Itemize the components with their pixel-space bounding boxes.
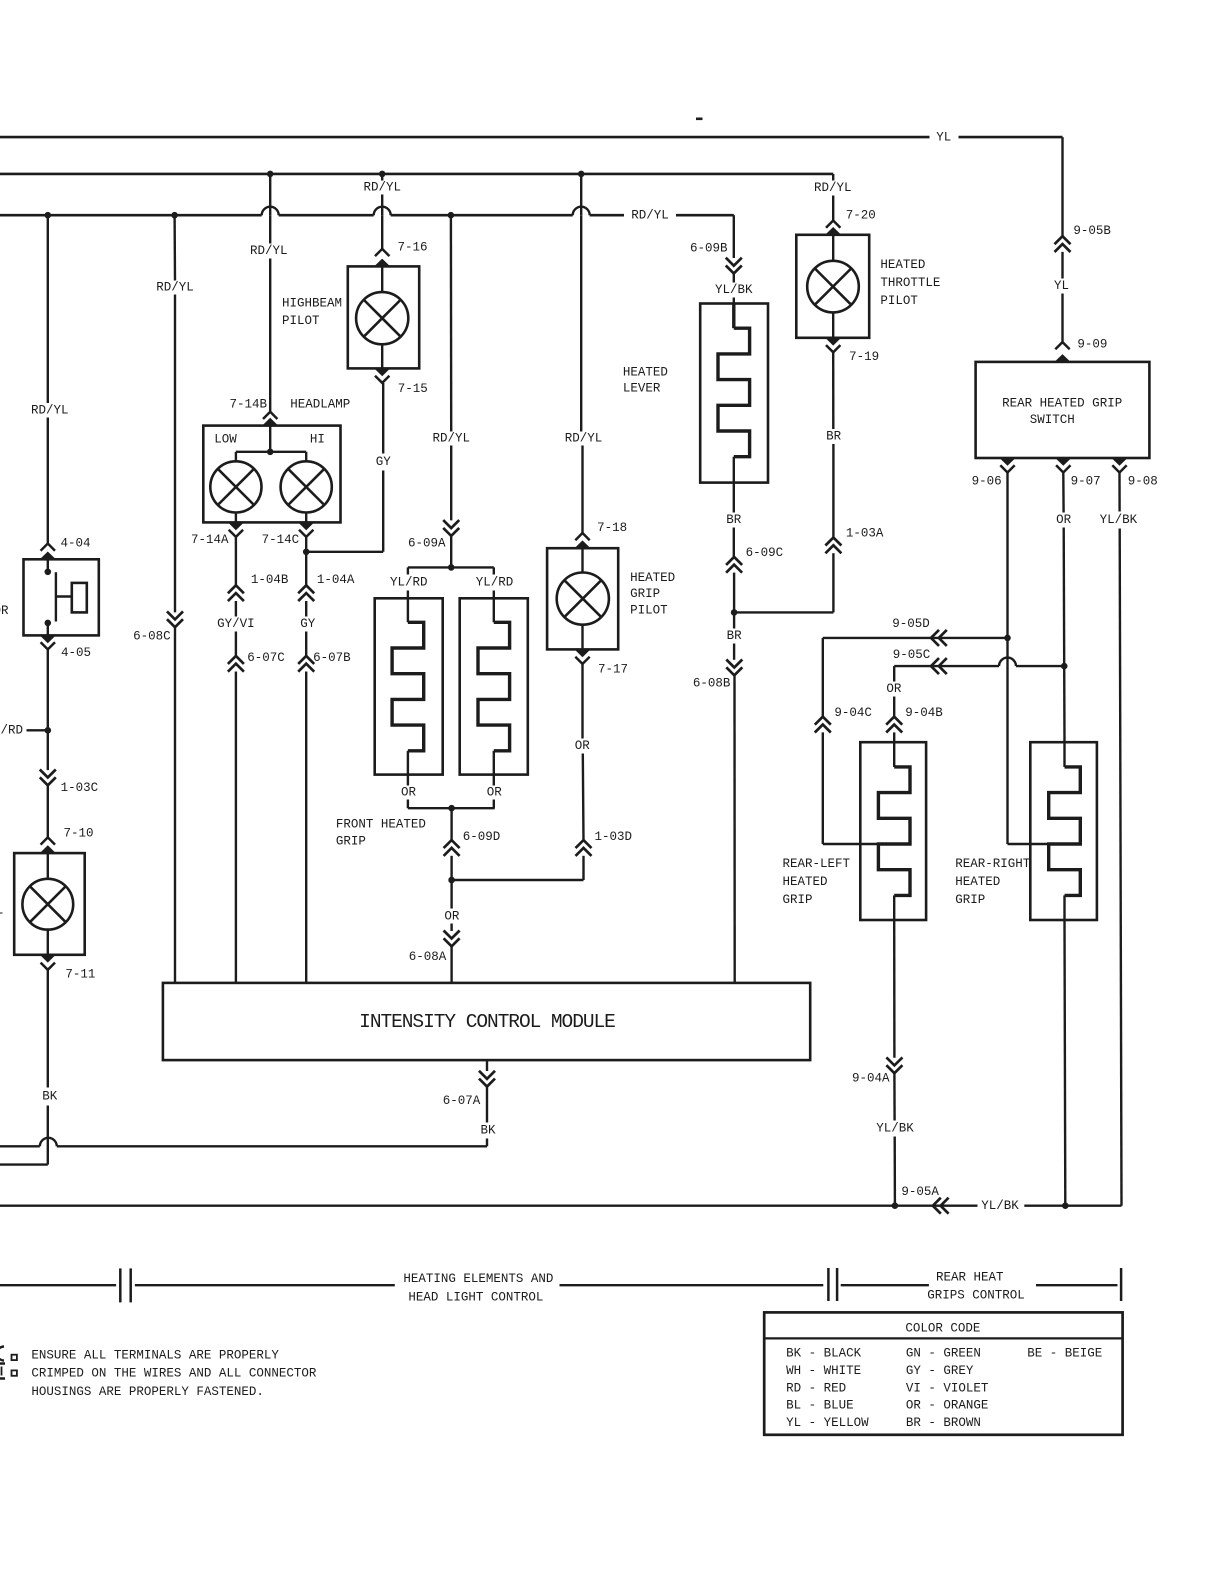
svg-text:HEATED: HEATED: [623, 365, 668, 379]
svg-text:BK: BK: [480, 1123, 496, 1137]
svg-text:WH - WHITE: WH - WHITE: [786, 1364, 861, 1378]
wire: BK bottom run: [57, 1145, 487, 1147]
wire to front-grip splice: [450, 536, 452, 568]
svg-text:RD - RED: RD - RED: [786, 1381, 846, 1395]
terminal into headlamp: [262, 418, 278, 426]
svg-text:6-09C: 6-09C: [746, 546, 784, 560]
wire 9-06 into rear-right element: [1008, 843, 1049, 845]
svg-text:6-08A: 6-08A: [409, 950, 447, 964]
svg-text:GY/VI: GY/VI: [217, 617, 255, 631]
wire OR below junction: [450, 880, 452, 909]
wire: 9-05D link: [823, 637, 1008, 639]
front heated grip (left) heating element: [392, 622, 424, 751]
wire BR below junction: [733, 612, 735, 628]
section bracket: rear heat grips control: [827, 1268, 830, 1301]
wire YL/BK 9-08 down: [1118, 473, 1120, 512]
wire 9-04C down: [822, 638, 824, 717]
connector pin 7-14C: [299, 530, 313, 537]
wire below 7-14C node: [305, 537, 307, 585]
svg-text:7-14A: 7-14A: [191, 533, 229, 547]
svg-text:OR: OR: [575, 739, 591, 753]
front heated grip (left) box: [375, 598, 443, 774]
node: YL/BK junction: [1062, 1202, 1069, 1209]
svg-text:BK - BLACK: BK - BLACK: [786, 1347, 862, 1361]
wire to intensity control module: [235, 672, 237, 983]
highbeam pilot lamp box: [348, 266, 419, 368]
connector pin 7-20: [826, 221, 840, 228]
connector pin 7-14A: [229, 530, 243, 537]
wire drop to heated lever: [733, 215, 735, 258]
svg-text:HEATED: HEATED: [630, 571, 675, 585]
svg-text:GRIPS CONTROL: GRIPS CONTROL: [927, 1288, 1025, 1302]
connector 9-04C: [815, 717, 831, 725]
node: bus2 junction x=581: [578, 171, 585, 178]
svg-text:6-09D: 6-09D: [463, 830, 501, 844]
terminal out 9-08: [1112, 458, 1128, 466]
connector 6-08C: [167, 619, 183, 627]
terminal into switch (solid arrow): [40, 552, 56, 560]
headlamp H1 box: [203, 426, 340, 523]
node: bus3 junction x=450.9: [448, 212, 455, 219]
wire: YL drop from bus 1: [1061, 137, 1063, 236]
wire OR 9-04B down: [893, 666, 895, 681]
wire: RD/YL bus (line 2): [0, 173, 833, 176]
svg-text:REAR-LEFT: REAR-LEFT: [783, 857, 851, 871]
node: OR merge: [448, 805, 455, 812]
wire inside lamp box: [47, 853, 49, 878]
svg-text:RD/YL: RD/YL: [250, 244, 288, 258]
svg-text:YL/RD: YL/RD: [390, 575, 428, 589]
wire OR 9-07 down: [1062, 473, 1065, 513]
svg-text:1-03A: 1-03A: [846, 527, 884, 541]
wire inside headlamp to node: [269, 426, 271, 452]
svg-text:4-05: 4-05: [61, 646, 91, 660]
svg-text:YL/BK: YL/BK: [981, 1199, 1019, 1213]
svg-text:RD/YL: RD/YL: [31, 403, 69, 417]
svg-text:9-08: 9-08: [1128, 475, 1158, 489]
svg-text:9-09: 9-09: [1077, 338, 1107, 352]
wire: RD/YL bus (line 3) with inline label and hops: [0, 214, 262, 217]
wire down from merge: [450, 808, 452, 840]
connector pin 9-07: [1056, 465, 1070, 472]
wire: BK down from 7-11: [47, 970, 49, 1088]
svg-text:HIGHBEAM: HIGHBEAM: [282, 296, 342, 310]
node: bus2 junction x=382: [379, 171, 386, 178]
switch actuator: [56, 595, 72, 597]
rear heated grip switch box: [976, 362, 1150, 458]
svg-text:PILOT: PILOT: [282, 314, 320, 328]
terminal out of switch: [40, 635, 56, 643]
connector pin 4-04: [41, 544, 55, 551]
svg-text:HEAD LIGHT CONTROL: HEAD LIGHT CONTROL: [408, 1290, 543, 1304]
svg-text:BR: BR: [727, 629, 743, 643]
heated lever box: [700, 304, 768, 483]
wire: 9-05C link: [894, 665, 999, 667]
svg-text:INTENSITY CONTROL MODULE: INTENSITY CONTROL MODULE: [359, 1011, 615, 1033]
svg-text:OR: OR: [444, 909, 460, 923]
wire OR to rear-right grip pin: [1063, 666, 1066, 742]
svg-text:OR - ORANGE: OR - ORANGE: [906, 1399, 989, 1413]
switch blade: [55, 572, 57, 621]
svg-text:9-05D: 9-05D: [892, 617, 930, 631]
wire BR out of lever: [733, 457, 735, 483]
terminal out of lamp box: [40, 955, 56, 963]
svg-text:7-14B: 7-14B: [230, 397, 268, 411]
wire: BK to left edge: [0, 1163, 48, 1165]
connector 1-03D: [576, 840, 592, 848]
svg-text:OR: OR: [401, 786, 417, 800]
wire: RD/YL drop 6-09A: [450, 215, 453, 431]
svg-text:RD/YL: RD/YL: [631, 209, 669, 223]
wire: main RD/YL bus (line 1, YL feed at right): [0, 136, 930, 139]
svg-text:BE - BEIGE: BE - BEIGE: [1027, 1347, 1102, 1361]
terminal out 7-14C: [298, 522, 314, 530]
svg-text:FRONT HEATED: FRONT HEATED: [336, 818, 426, 832]
section bracket: heating elements and head light control: [0, 1284, 116, 1286]
svg-text:GN - GREEN: GN - GREEN: [906, 1347, 981, 1361]
connector 1-04B: [228, 585, 244, 593]
connector 9-04B: [886, 717, 902, 725]
wire: RD/YL corner from bus 2: [832, 174, 834, 181]
connector 6-08B: [726, 667, 742, 675]
svg-text:HEATED: HEATED: [880, 258, 925, 272]
terminal out 7-14A: [228, 522, 244, 530]
connector pin 7-16: [375, 249, 389, 256]
note icon (cut off at page edge): [0, 1347, 4, 1361]
svg-text:OR: OR: [0, 604, 9, 618]
connector 1-03A: [825, 538, 841, 546]
svg-text:9-06: 9-06: [972, 475, 1002, 489]
wire: RD/YL drop to headlamp: [269, 174, 271, 215]
connector pin 7-19: [826, 345, 840, 352]
svg-text:PILOT: PILOT: [630, 603, 668, 617]
connector pin 7-14B: [263, 412, 277, 419]
connector 9-05A double chevron: [933, 1198, 941, 1214]
HI filament lamp: [281, 461, 332, 512]
connector pin 7-17: [575, 657, 589, 664]
svg-text:7-16: 7-16: [398, 241, 428, 255]
connector 6-07C: [228, 656, 244, 664]
svg-text:REAR HEATED GRIP: REAR HEATED GRIP: [1002, 397, 1122, 411]
svg-text:9-04A: 9-04A: [852, 1071, 890, 1085]
wire YL/BK: [733, 274, 735, 283]
svg-text:T: T: [0, 911, 4, 925]
connector pin 9-06: [1000, 465, 1014, 472]
connector 9-05C: [931, 658, 939, 674]
node: OR junction with 1-03D branch: [448, 877, 455, 884]
svg-text:YL/BK: YL/BK: [715, 283, 753, 297]
pilot lamp box (left, label cut off): [14, 853, 85, 955]
terminal out of highbeam pilot: [374, 368, 390, 376]
node: GY joins 7-14C lead: [303, 549, 310, 556]
svg-text:6-07B: 6-07B: [313, 651, 351, 665]
svg-text:HEATING ELEMENTS AND: HEATING ELEMENTS AND: [403, 1272, 553, 1286]
wire OR below 7-17: [581, 664, 583, 739]
svg-text:7-20: 7-20: [846, 208, 876, 222]
node: front grip feed splice: [448, 564, 455, 571]
switch contacts: [47, 559, 49, 572]
wire to LOW filament: [235, 452, 237, 462]
wire: RD/YL drop 6-08C: [173, 215, 176, 280]
wire: OR merge bar: [408, 807, 495, 809]
lamp: [807, 261, 859, 313]
svg-text:6-09B: 6-09B: [690, 241, 728, 255]
svg-text:RD/YL: RD/YL: [432, 431, 470, 445]
LOW filament lamp: [210, 461, 261, 512]
svg-text:RD/YL: RD/YL: [814, 181, 852, 195]
svg-text:HEATED: HEATED: [955, 875, 1000, 889]
connector 6-09C: [726, 557, 742, 565]
connector pin 7-11: [41, 963, 55, 970]
svg-text:YL - YELLOW: YL - YELLOW: [786, 1416, 869, 1430]
connector 1-04A: [298, 585, 314, 593]
node: BR junction: [731, 609, 738, 616]
svg-text:9-04B: 9-04B: [905, 706, 943, 720]
svg-text:GRIP: GRIP: [336, 834, 366, 848]
rear-left heated grip box: [860, 742, 926, 920]
svg-text:YL/BK: YL/BK: [876, 1122, 914, 1136]
svg-text:7-15: 7-15: [398, 382, 428, 396]
svg-text:ENSURE ALL TERMINALS ARE PROPE: ENSURE ALL TERMINALS ARE PROPERLY: [31, 1348, 279, 1362]
wire below switch: [47, 649, 49, 730]
wire inside: [832, 235, 834, 261]
svg-text:REAR-RIGHT: REAR-RIGHT: [955, 857, 1031, 871]
svg-text:7-14C: 7-14C: [262, 533, 300, 547]
wire below rear-right grip: [1063, 895, 1065, 920]
front heated grip (right) box: [460, 598, 528, 774]
wire OR out of right element: [493, 751, 495, 786]
svg-text:SWITCH: SWITCH: [1030, 413, 1075, 427]
svg-text:CRIMPED ON THE WIRES AND ALL C: CRIMPED ON THE WIRES AND ALL CONNECTOR: [31, 1367, 317, 1381]
svg-text:REAR HEAT: REAR HEAT: [936, 1271, 1004, 1285]
node: 9-05A junction: [892, 1202, 899, 1209]
wire: GY to 7-14C node: [306, 551, 383, 553]
svg-text:GRIP: GRIP: [783, 893, 813, 907]
svg-text:7-10: 7-10: [64, 827, 94, 841]
svg-text:VI - VIOLET: VI - VIOLET: [906, 1381, 989, 1395]
terminal out: [575, 649, 591, 657]
svg-text:HEADLAMP: HEADLAMP: [290, 397, 350, 411]
svg-text:4-04: 4-04: [61, 537, 91, 551]
svg-text:GRIP: GRIP: [955, 893, 985, 907]
svg-text:PILOT: PILOT: [880, 294, 918, 308]
switch S1 (handlebar switch) box: [24, 559, 99, 635]
svg-text:9-05A: 9-05A: [901, 1185, 939, 1199]
node: bus2 junction x=270: [267, 171, 274, 178]
wire: GY from 7-15: [382, 383, 384, 454]
terminal out 9-07: [1055, 458, 1071, 466]
wire into rear-left element: [823, 843, 879, 845]
svg-text:YL: YL: [1054, 279, 1069, 293]
rear-right heated grip box: [1030, 742, 1097, 920]
heated throttle pilot lamp box: [796, 235, 869, 338]
svg-text:OR: OR: [487, 786, 503, 800]
svg-text:GY: GY: [300, 617, 316, 631]
terminal out: [825, 338, 841, 346]
svg-text:7-19: 7-19: [849, 350, 879, 364]
node: headlamp common: [267, 449, 274, 456]
svg-text:9-07: 9-07: [1071, 475, 1101, 489]
svg-text:BR - BROWN: BR - BROWN: [906, 1416, 981, 1430]
svg-text:BR: BR: [826, 430, 842, 444]
connector pin 7-10: [41, 837, 55, 844]
lamp: [356, 292, 408, 344]
connector 6-08A: [444, 938, 460, 946]
terminal out 9-06: [1000, 458, 1016, 466]
wire 9-06 down: [1006, 473, 1008, 638]
heated lever heating element: [732, 304, 735, 329]
svg-text:HI: HI: [310, 432, 325, 446]
connector 9-05D: [931, 630, 939, 646]
svg-text:/RD: /RD: [1, 724, 24, 738]
wire YL/RD to right grip element: [493, 567, 495, 574]
svg-text:6-07C: 6-07C: [247, 651, 285, 665]
terminal into heated grip pilot: [575, 540, 591, 548]
svg-text:RD/YL: RD/YL: [156, 280, 194, 294]
intensity control module box: [163, 983, 810, 1060]
connector pin 9-08: [1112, 465, 1126, 472]
svg-text:BL - BLUE: BL - BLUE: [786, 1399, 854, 1413]
front heated grip (right) heating element: [478, 622, 510, 751]
connector 6-09B: [726, 266, 742, 274]
svg-text:RD/YL: RD/YL: [565, 431, 603, 445]
wire below 7-14A: [235, 537, 237, 585]
wire OR out of left element: [407, 751, 409, 786]
lamp: [557, 573, 609, 625]
svg-text:1-03D: 1-03D: [595, 830, 633, 844]
svg-text:6-07A: 6-07A: [443, 1094, 481, 1108]
terminal into rear heated grip switch: [1055, 354, 1071, 362]
wire 6-07A out of module: [486, 1060, 488, 1071]
svg-text:HEATED: HEATED: [783, 875, 828, 889]
svg-text:YL/RD: YL/RD: [476, 575, 514, 589]
svg-text:GY: GY: [376, 455, 392, 469]
wire to intensity control module: [305, 672, 307, 983]
rear-right heating element: [1063, 742, 1065, 767]
filament leads to box bottom: [235, 513, 237, 523]
wire to intensity control module: [450, 946, 452, 983]
connector pin 7-18: [575, 533, 589, 540]
svg-text:YL: YL: [936, 131, 951, 145]
connector 6-07A: [479, 1079, 495, 1087]
svg-text:OR: OR: [886, 682, 902, 696]
node: 9-05D tap: [1004, 635, 1011, 642]
svg-text:LOW: LOW: [214, 432, 237, 446]
color code title divider: [764, 1337, 1122, 1339]
svg-text:RD/YL: RD/YL: [363, 181, 401, 195]
svg-text:GRIP: GRIP: [630, 587, 660, 601]
svg-text:6-08B: 6-08B: [693, 677, 731, 691]
connector 6-09D: [444, 840, 460, 848]
node: 9-05C tap: [1061, 663, 1068, 670]
terminal into highbeam pilot: [374, 259, 390, 267]
svg-text:9-04C: 9-04C: [834, 706, 872, 720]
svg-text:YL/BK: YL/BK: [1100, 513, 1138, 527]
terminal into heated throttle pilot: [825, 227, 841, 235]
rear-left heating element: [893, 742, 895, 767]
wire to intensity control module: [174, 627, 176, 983]
connector 9-05B: [1055, 236, 1071, 244]
wire: RD/YL drop to switch 4-04: [47, 215, 49, 403]
wire: RD/YL drop to heated grip pilot: [580, 174, 582, 215]
lamp (bulb with X): [22, 879, 73, 930]
svg-text:HOUSINGS ARE PROPERLY FASTENED: HOUSINGS ARE PROPERLY FASTENED.: [31, 1385, 264, 1399]
connector 9-04A: [886, 1065, 902, 1073]
svg-text:6-09A: 6-09A: [408, 537, 446, 551]
svg-text:1-04A: 1-04A: [317, 573, 355, 587]
node: bus3 junction x=47.8: [45, 212, 52, 219]
wire: OR link to 1-03D: [452, 879, 584, 881]
connector pin 9-09: [1055, 342, 1069, 349]
node: bus3 junction x=174.6: [171, 212, 178, 219]
wire: RD/YL drop to highbeam pilot: [381, 174, 383, 181]
connector 6-09A: [443, 528, 459, 536]
wire: BR link to 1-03A: [734, 611, 833, 613]
svg-text:7-11: 7-11: [65, 968, 95, 982]
svg-text:GY - GREY: GY - GREY: [906, 1364, 974, 1378]
svg-text:1-04B: 1-04B: [251, 573, 289, 587]
heated grip pilot lamp box: [547, 548, 618, 649]
wire to HI filament: [305, 452, 307, 462]
wire: YL/BK bottom bus: [0, 1204, 978, 1206]
svg-text:LEVER: LEVER: [623, 382, 661, 396]
wire inside: [381, 266, 383, 292]
svg-text:THROTTLE: THROTTLE: [880, 276, 940, 290]
wire YL: [1061, 252, 1063, 279]
svg-text:7-18: 7-18: [597, 521, 627, 535]
wire BR up to 7-19: [832, 444, 834, 538]
connector pin 4-05: [41, 642, 55, 649]
connector 1-03C: [40, 777, 56, 785]
wire YL/RD to left grip element: [407, 567, 409, 574]
svg-text:7-17: 7-17: [598, 663, 628, 677]
terminal into pilot lamp box: [40, 845, 56, 853]
connector pin 7-15: [375, 376, 389, 383]
svg-text:9-05C: 9-05C: [893, 648, 931, 662]
wire inside: [581, 548, 583, 572]
svg-text:1-03C: 1-03C: [61, 781, 99, 795]
color code box: [764, 1312, 1122, 1434]
connector 6-07B: [298, 656, 314, 664]
svg-text:BK: BK: [42, 1090, 58, 1104]
wire YL/BK below rear-left grip: [893, 895, 895, 920]
svg-text:9-05B: 9-05B: [1073, 224, 1111, 238]
svg-text:BR: BR: [726, 513, 742, 527]
stray mark: [696, 118, 703, 121]
wire BR to junction: [733, 573, 735, 613]
wire: [47, 785, 49, 837]
svg-text:COLOR CODE: COLOR CODE: [905, 1322, 980, 1336]
svg-text:OR: OR: [1056, 513, 1072, 527]
wire to intensity control module: [733, 675, 736, 983]
svg-text:6-08C: 6-08C: [133, 629, 171, 643]
node: junction at /RD stub: [45, 727, 52, 734]
